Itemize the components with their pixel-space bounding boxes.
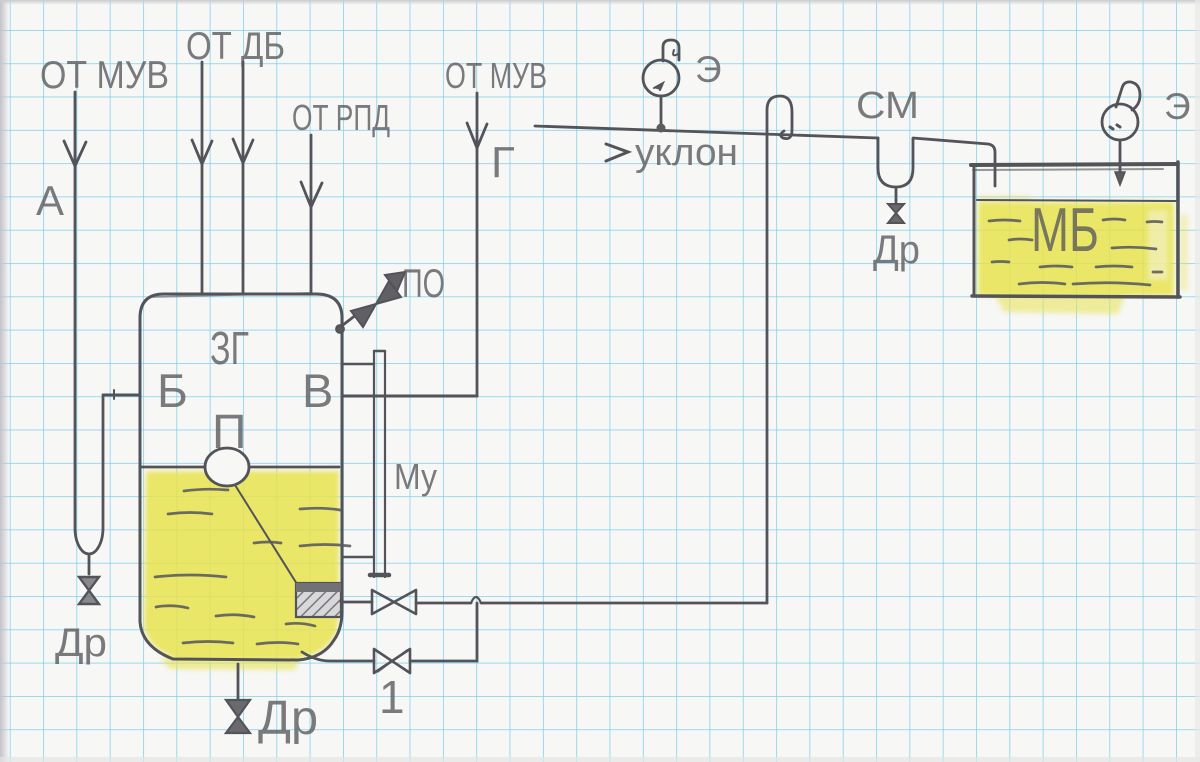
svg-text:Б: Б	[157, 364, 188, 417]
svg-text:СМ: СМ	[856, 85, 919, 127]
svg-text:ОТ МУВ: ОТ МУВ	[445, 55, 547, 96]
svg-text:Др: Др	[873, 228, 920, 272]
svg-text:ОТ ДБ: ОТ ДБ	[186, 25, 285, 68]
svg-text:Г: Г	[491, 138, 515, 187]
svg-text:Му: Му	[394, 456, 437, 497]
svg-text:1: 1	[379, 671, 405, 723]
svg-text:МБ: МБ	[1031, 196, 1099, 265]
svg-text:ОТ РПД: ОТ РПД	[292, 97, 390, 138]
svg-text:П: П	[212, 406, 247, 459]
svg-text:Др: Др	[55, 621, 107, 665]
svg-text:Э: Э	[695, 49, 722, 90]
svg-text:ЗГ: ЗГ	[210, 322, 249, 374]
svg-text:Др: Др	[258, 692, 318, 745]
svg-text:А: А	[36, 177, 64, 224]
svg-text:ПО: ПО	[402, 262, 445, 306]
svg-text:Э: Э	[1164, 86, 1191, 127]
svg-text:ОТ МУВ: ОТ МУВ	[40, 54, 169, 97]
svg-text:В: В	[302, 364, 333, 417]
svg-text:уклон: уклон	[635, 132, 738, 174]
